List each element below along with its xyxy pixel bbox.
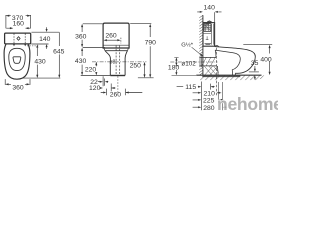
dim 430 line [36, 48, 38, 77]
flush valve [212, 24, 214, 45]
dim 645 line [58, 32, 60, 77]
svg-text:645: 645 [53, 49, 65, 56]
dim 370 line [6, 15, 31, 17]
dim 140 arrows (outside) [46, 27, 48, 49]
svg-text:260: 260 [110, 91, 122, 98]
outlet center dashed [215, 48, 217, 96]
bowl outer [4, 44, 30, 79]
bottom rows [201, 82, 203, 111]
row 210 [193, 92, 222, 94]
base region below pipe [216, 66, 219, 75]
seat edge line [104, 48, 128, 50]
outlet pipe [199, 57, 216, 66]
svg-text:ø8: ø8 [109, 59, 115, 65]
dashed ext line right [27, 45, 39, 47]
dim 790 [130, 23, 151, 25]
button diamond [17, 37, 20, 41]
button on lid [208, 22, 212, 23]
row 225 [193, 99, 224, 101]
wall hatch [199, 15, 203, 75]
fill valve internals [204, 24, 211, 32]
bowl underside curve to base [234, 73, 236, 75]
pedestal bottom [110, 75, 125, 77]
svg-text:260: 260 [105, 32, 117, 39]
svg-text:120: 120 [89, 85, 101, 92]
svg-text:360: 360 [12, 84, 24, 91]
svg-text:430: 430 [75, 58, 87, 65]
dim 120 row [110, 84, 112, 92]
cistern rect (plan) [5, 33, 31, 44]
pedestal bottom ext [81, 75, 111, 77]
ext hline B (rect bottom) [31, 43, 48, 45]
dim 35 [249, 71, 259, 73]
floor line [196, 74, 261, 76]
pan back above pipe [214, 50, 217, 57]
centerline horizontal [92, 61, 146, 63]
svg-text:180: 180 [168, 64, 180, 71]
dim 370 ext lines [6, 15, 31, 28]
svg-text:ø102: ø102 [181, 60, 196, 67]
seat hinge bump [215, 46, 219, 47]
dim 22 row [102, 76, 104, 86]
svg-text:115: 115 [185, 84, 196, 91]
svg-text:280: 280 [203, 105, 215, 112]
svg-text:225: 225 [203, 98, 215, 105]
water line [204, 33, 212, 35]
svg-text:250: 250 [130, 63, 142, 70]
dim 180 + dim ø102 shared vline [175, 59, 177, 63]
floor hatch [200, 75, 264, 80]
flush area shape [13, 57, 21, 64]
dim 250 [144, 65, 146, 75]
dim 140 top [197, 11, 221, 13]
svg-text:360: 360 [75, 33, 87, 40]
bowl inner back line [231, 70, 233, 76]
seat underside [215, 50, 240, 70]
svg-text:160: 160 [13, 21, 25, 28]
G1/2 leader [192, 47, 203, 56]
cistern front [103, 23, 129, 48]
svg-text:nehome: nehome [217, 94, 278, 114]
valve seat bottom [205, 43, 212, 44]
outlet hidden lines [116, 46, 120, 76]
svg-text:210: 210 [204, 91, 216, 98]
cistern side [203, 23, 215, 47]
dim 360/430 chain vline at x82 [83, 23, 103, 25]
pipe flange at wall [200, 56, 202, 67]
svg-text:G½*: G½* [181, 42, 193, 49]
dim 220 [95, 62, 97, 72]
svg-text:220: 220 [85, 67, 97, 74]
svg-text:140: 140 [39, 36, 51, 43]
ext hline A (rect top to 645) [31, 31, 59, 33]
svg-text:140: 140 [204, 4, 216, 11]
dim 260 row [107, 89, 126, 96]
seat top profile [215, 47, 256, 74]
row 115 [177, 86, 215, 88]
dim 360 ext hooks [5, 79, 30, 85]
bowl front ext line [23, 77, 61, 79]
svg-text:400: 400 [260, 57, 272, 64]
pipe centerline [170, 61, 217, 63]
bowl inner rim [9, 48, 25, 70]
dim 160 line+arrows [6, 27, 30, 29]
row 280 [193, 106, 228, 108]
bowl sides tapering to pedestal [105, 51, 110, 76]
dim 400 [243, 44, 272, 46]
dim 360 line [9, 83, 27, 85]
svg-text:430: 430 [34, 59, 46, 66]
svg-text:35: 35 [251, 60, 259, 67]
dim 260 top (inside cistern) [107, 39, 117, 41]
svg-text:790: 790 [145, 40, 157, 47]
base shadow band [202, 75, 240, 77]
bolt marks below tank [14, 44, 25, 45]
wall line [202, 15, 204, 75]
hidden dashed lines in tank [14, 34, 25, 44]
